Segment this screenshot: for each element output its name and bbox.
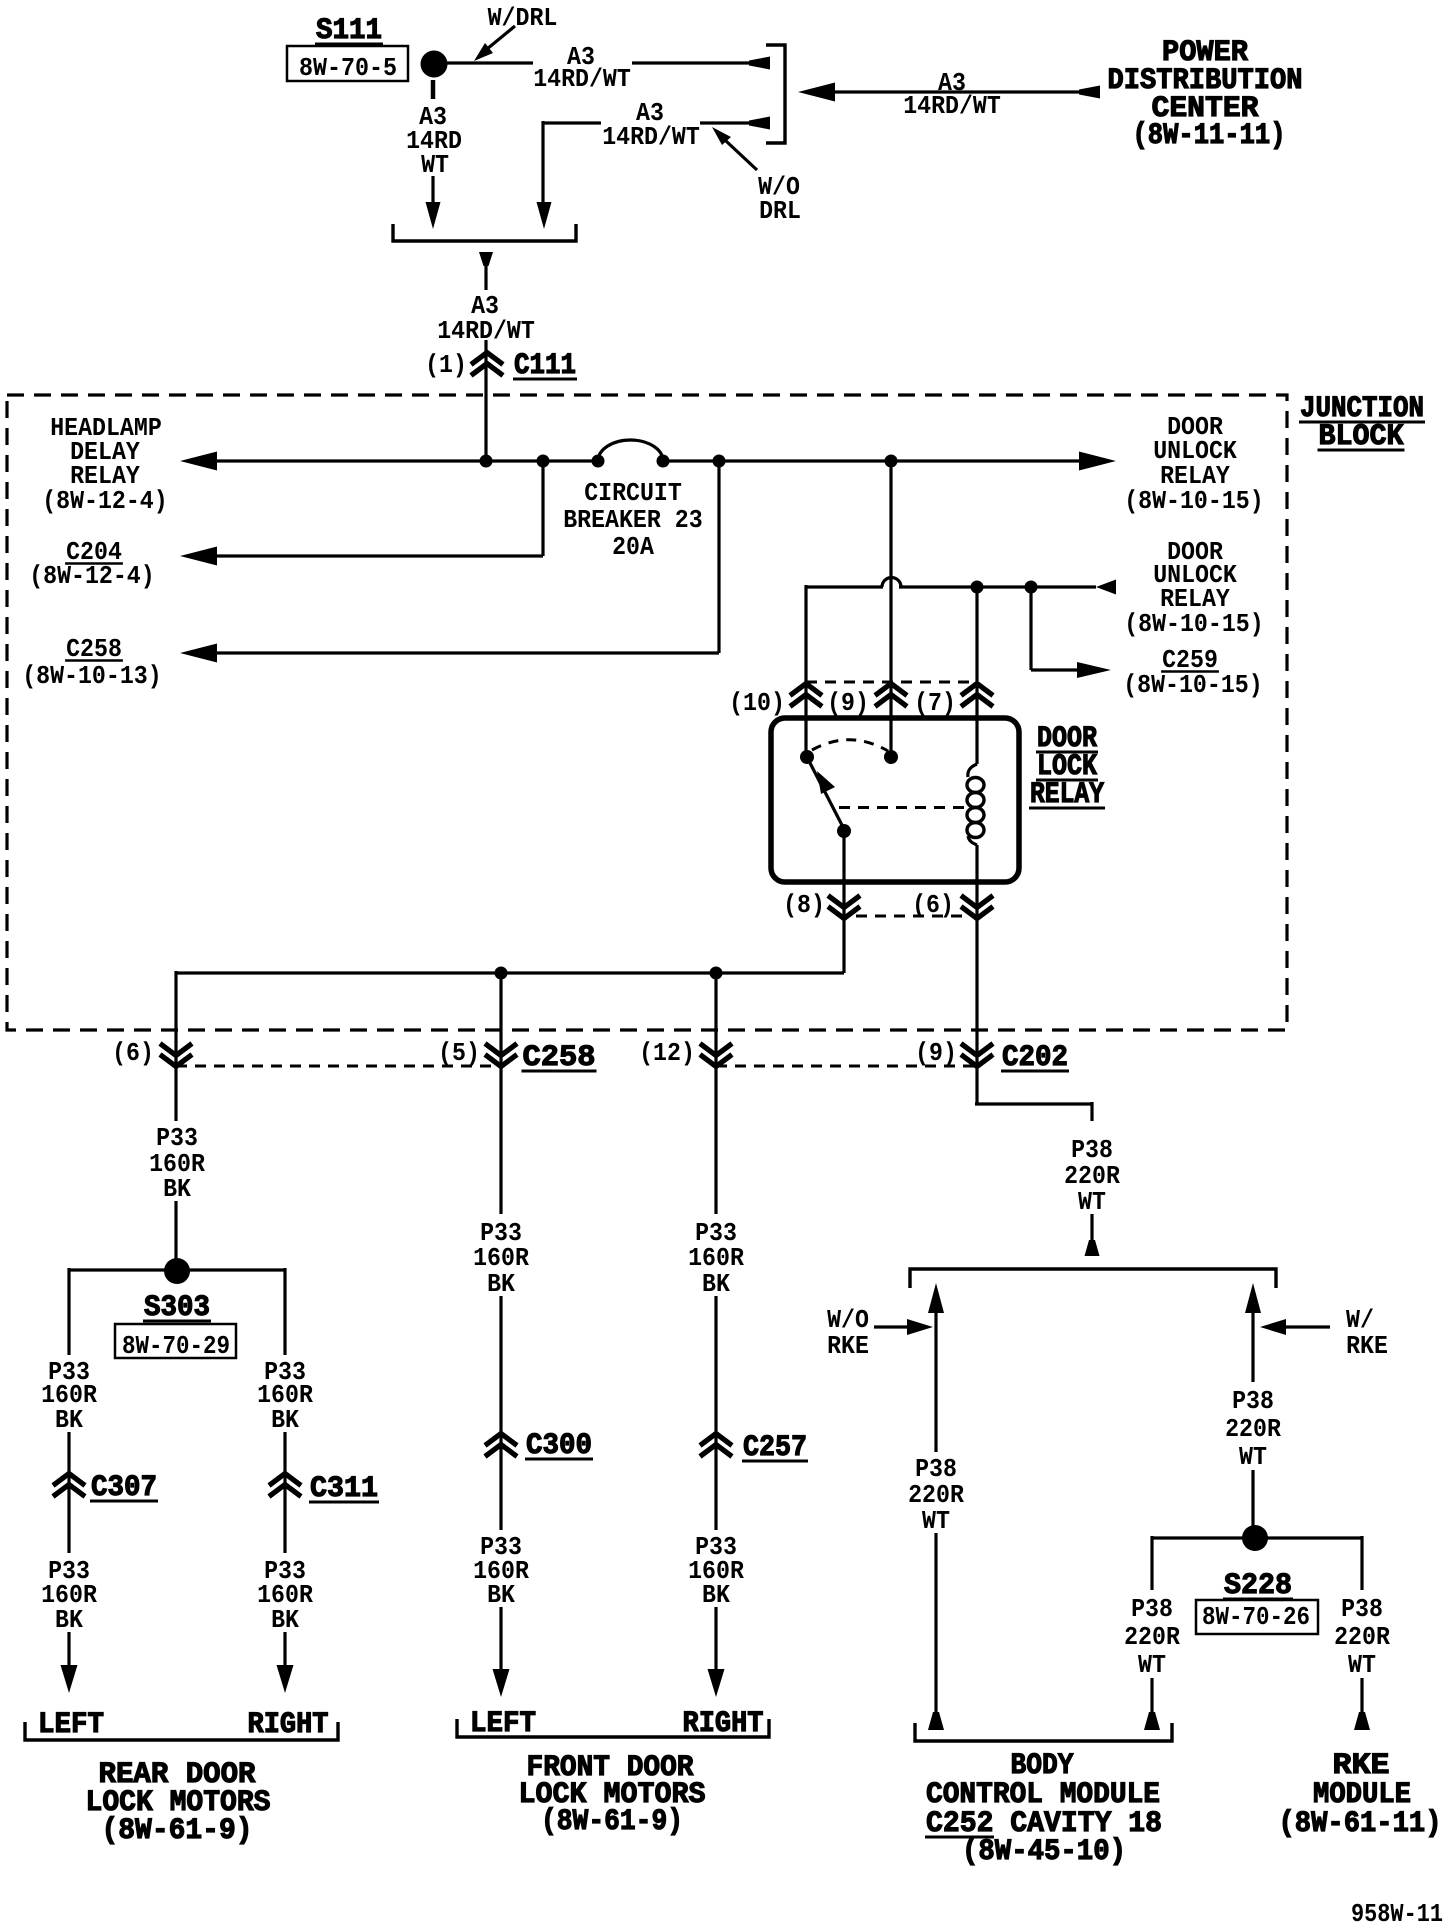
svg-text:(8): (8) — [783, 891, 825, 920]
svg-text:WT: WT — [1078, 1188, 1106, 1217]
svg-text:P38: P38 — [1341, 1595, 1383, 1624]
svg-text:RKE: RKE — [827, 1332, 869, 1361]
svg-text:BK: BK — [271, 1606, 300, 1635]
svg-text:(10): (10) — [729, 689, 785, 718]
svg-text:(8W-12-4): (8W-12-4) — [42, 487, 168, 516]
svg-text:BK: BK — [55, 1406, 84, 1435]
svg-text:DRL: DRL — [759, 197, 801, 226]
svg-text:P38: P38 — [1232, 1387, 1274, 1416]
svg-text:160R: 160R — [473, 1244, 529, 1273]
svg-text:(8W-10-15): (8W-10-15) — [1124, 610, 1264, 639]
svg-text:8W-70-29: 8W-70-29 — [122, 1332, 230, 1361]
svg-text:220R: 220R — [1334, 1623, 1390, 1652]
svg-text:BK: BK — [487, 1581, 516, 1610]
svg-text:P33: P33 — [156, 1124, 198, 1153]
svg-text:RKE: RKE — [1346, 1332, 1388, 1361]
svg-text:(7): (7) — [914, 689, 956, 718]
svg-text:(9): (9) — [915, 1039, 957, 1068]
svg-text:WT: WT — [1138, 1651, 1166, 1680]
svg-text:WT: WT — [1348, 1651, 1376, 1680]
svg-text:W/O: W/O — [827, 1306, 869, 1335]
svg-text:20A: 20A — [612, 533, 654, 562]
svg-text:W/DRL: W/DRL — [488, 4, 558, 33]
svg-text:8W-70-26: 8W-70-26 — [1202, 1603, 1310, 1632]
svg-text:BK: BK — [55, 1606, 84, 1635]
svg-text:P38: P38 — [915, 1455, 957, 1484]
svg-text:160R: 160R — [688, 1244, 744, 1273]
svg-text:(6): (6) — [112, 1039, 154, 1068]
svg-text:220R: 220R — [908, 1481, 964, 1510]
svg-text:CIRCUIT: CIRCUIT — [584, 479, 682, 508]
svg-text:W/: W/ — [1346, 1306, 1374, 1335]
svg-text:(8W-11-11): (8W-11-11) — [1133, 119, 1286, 153]
svg-text:220R: 220R — [1225, 1415, 1281, 1444]
svg-text:(5): (5) — [438, 1039, 480, 1068]
svg-text:(9): (9) — [827, 689, 869, 718]
svg-text:(6): (6) — [912, 891, 954, 920]
svg-text:(8W-61-9): (8W-61-9) — [102, 1814, 253, 1848]
svg-text:14RD/WT: 14RD/WT — [903, 92, 1001, 121]
svg-text:14RD/WT: 14RD/WT — [602, 123, 700, 152]
svg-text:BK: BK — [487, 1270, 516, 1299]
svg-text:BK: BK — [702, 1581, 731, 1610]
svg-text:(8W-10-13): (8W-10-13) — [22, 662, 162, 691]
svg-text:(1): (1) — [425, 351, 467, 380]
svg-text:BK: BK — [163, 1175, 192, 1204]
svg-text:(8W-61-11): (8W-61-11) — [1279, 1807, 1442, 1841]
svg-text:220R: 220R — [1064, 1162, 1120, 1191]
svg-text:958W-11: 958W-11 — [1351, 1900, 1443, 1926]
svg-text:BREAKER 23: BREAKER 23 — [563, 506, 703, 535]
svg-text:(8W-12-4): (8W-12-4) — [29, 562, 155, 591]
svg-text:P38: P38 — [1131, 1595, 1173, 1624]
svg-text:(8W-45-10): (8W-45-10) — [962, 1835, 1126, 1869]
svg-text:LEFT: LEFT — [38, 1708, 104, 1742]
svg-text:220R: 220R — [1124, 1623, 1180, 1652]
svg-text:(8W-10-15): (8W-10-15) — [1124, 487, 1264, 516]
svg-text:8W-70-5: 8W-70-5 — [299, 54, 397, 83]
svg-text:RIGHT: RIGHT — [248, 1708, 329, 1742]
svg-text:14RD/WT: 14RD/WT — [533, 65, 631, 94]
svg-text:WT: WT — [1239, 1443, 1267, 1472]
svg-text:WT: WT — [421, 151, 449, 180]
svg-text:(8W-10-15): (8W-10-15) — [1123, 671, 1263, 700]
svg-text:BK: BK — [702, 1270, 731, 1299]
svg-text:WT: WT — [922, 1507, 950, 1536]
svg-text:P38: P38 — [1071, 1136, 1113, 1165]
svg-text:(12): (12) — [639, 1039, 695, 1068]
svg-text:BK: BK — [271, 1406, 300, 1435]
svg-text:(8W-61-9): (8W-61-9) — [541, 1805, 683, 1839]
